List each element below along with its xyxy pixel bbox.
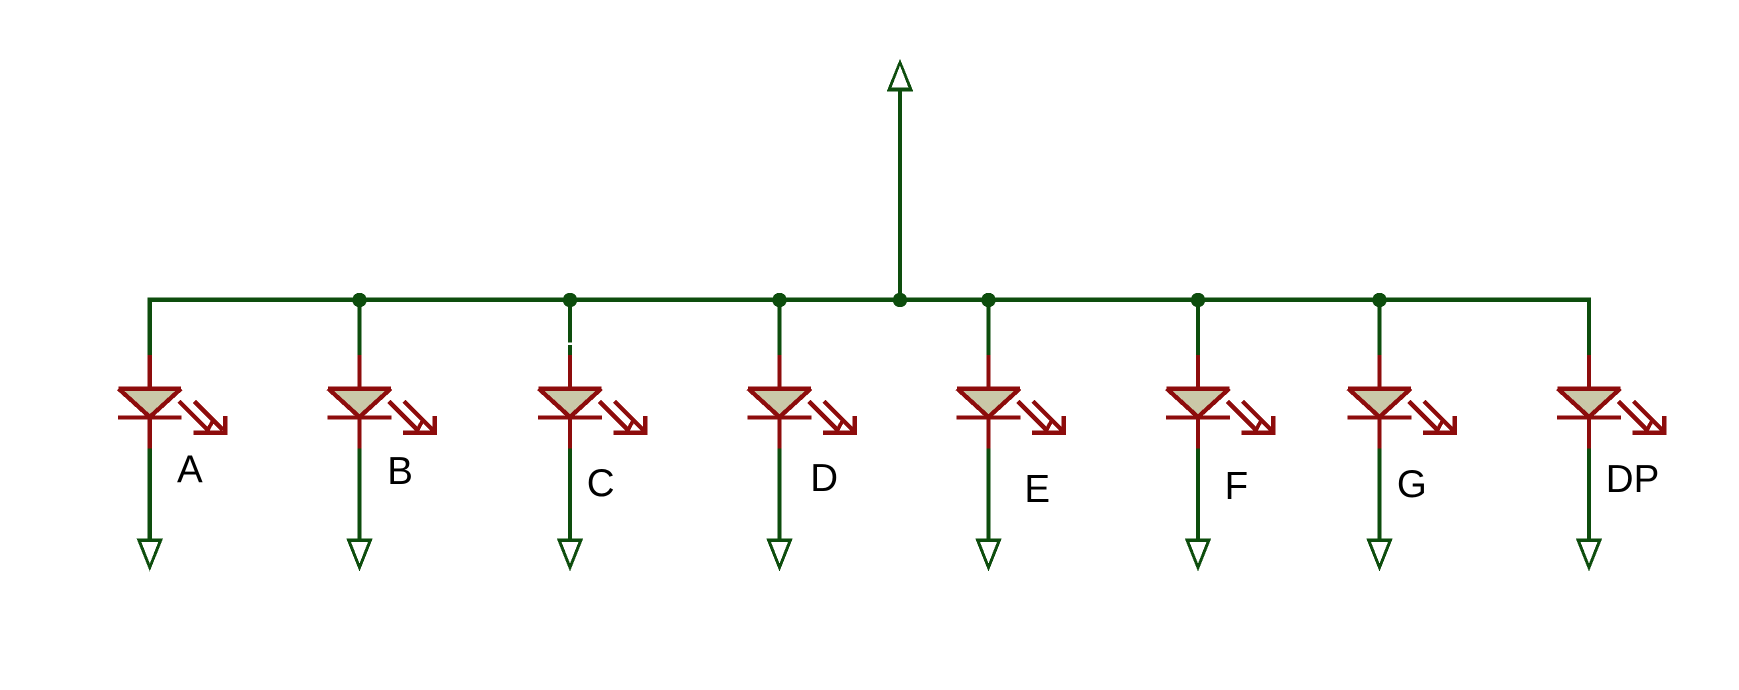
wire: bus to LED C anode	[568, 300, 572, 343]
LED segment D	[748, 355, 857, 449]
output port C (arrow)	[557, 538, 583, 571]
output port E (arrow)	[975, 538, 1001, 571]
LED segment C	[538, 355, 647, 449]
output port B (arrow)	[346, 538, 372, 571]
wire: LED E cathode to port	[986, 448, 990, 541]
LED segment G	[1348, 355, 1457, 449]
LED segment F	[1166, 355, 1275, 449]
svg-text:C: C	[587, 462, 615, 505]
junction dot at C	[563, 293, 577, 307]
wire: LED F cathode to port	[1196, 448, 1200, 541]
svg-text:G: G	[1397, 463, 1427, 506]
output port G (arrow)	[1366, 538, 1392, 571]
wire: bus to LED G anode	[1377, 300, 1381, 356]
wire: anode bus	[148, 298, 1592, 302]
junction dot at power arrow	[893, 293, 907, 307]
svg-text:DP: DP	[1606, 458, 1659, 501]
LED segment E	[957, 355, 1066, 449]
svg-text:E: E	[1024, 468, 1050, 511]
svg-text:F: F	[1225, 465, 1249, 508]
wire: bus to LED E anode	[986, 300, 990, 356]
wire: LED D cathode to port	[777, 448, 781, 541]
junction dot at F	[1191, 293, 1205, 307]
wire: bus to LED F anode	[1196, 300, 1200, 356]
junction dot at E	[981, 293, 995, 307]
output port A (arrow)	[137, 538, 163, 571]
output port DP (arrow)	[1576, 538, 1602, 571]
wire: LED G cathode to port	[1377, 448, 1381, 541]
svg-text:A: A	[177, 448, 203, 491]
output port D (arrow)	[766, 538, 792, 571]
svg-text:D: D	[810, 457, 838, 500]
LED segment A	[118, 355, 227, 449]
power net arrow (common anode supply)	[887, 59, 914, 302]
output port F (arrow)	[1185, 538, 1211, 571]
LED segment DP	[1557, 355, 1666, 449]
junction dot at G	[1372, 293, 1386, 307]
svg-text:B: B	[387, 450, 413, 493]
wire: bus to LED DP anode	[1587, 300, 1591, 356]
wire: LED DP cathode to port	[1587, 448, 1591, 541]
wire: bus to LED A anode	[148, 300, 152, 356]
junction dot at B	[352, 293, 366, 307]
LED segment B	[328, 355, 437, 449]
wire: bus to LED B anode	[357, 300, 361, 356]
wire: bus to LED D anode	[777, 300, 781, 356]
wire: LED B cathode to port	[357, 448, 361, 541]
wire: LED A cathode to port	[148, 448, 152, 541]
junction dot at D	[772, 293, 786, 307]
wire: LED C cathode to port	[568, 448, 572, 541]
wire	[568, 345, 572, 356]
